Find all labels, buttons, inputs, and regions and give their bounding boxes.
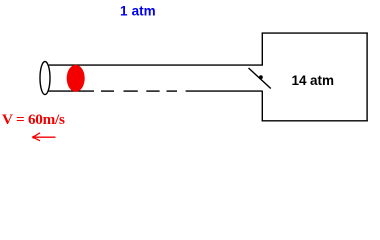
red fluid element ellipse — [67, 65, 85, 92]
tank left wall upper segment — [261, 33, 263, 66]
tube bottom wall dash 1 — [101, 90, 114, 92]
tank right wall — [366, 33, 368, 122]
tube top wall wire — [49, 64, 263, 66]
tank left wall lower segment — [261, 91, 263, 121]
svg-text:1atm: 1atm — [120, 3, 156, 18]
tube opening ellipse — [40, 62, 50, 95]
velocity arrowhead tip dot — [32, 136, 35, 139]
tube bottom wall solid segment right — [186, 90, 263, 92]
velocity arrowhead upper barb — [33, 133, 40, 137]
tube bottom wall solid segment left — [48, 90, 94, 92]
tank top wall — [262, 32, 368, 34]
tube bottom wall dash 4 — [167, 90, 178, 92]
tank bottom wall — [262, 120, 368, 122]
pointer leader line into tube entrance — [249, 68, 271, 89]
velocity direction arrow shaft — [33, 136, 56, 138]
velocity arrowhead lower barb — [33, 137, 40, 141]
svg-text:V = 60m/s: V = 60m/s — [2, 111, 65, 128]
tube bottom wall dash 2 — [124, 90, 138, 92]
tube bottom wall dash 3 — [146, 90, 159, 92]
pointer dot — [259, 75, 263, 79]
svg-text:14atm: 14atm — [292, 73, 335, 88]
